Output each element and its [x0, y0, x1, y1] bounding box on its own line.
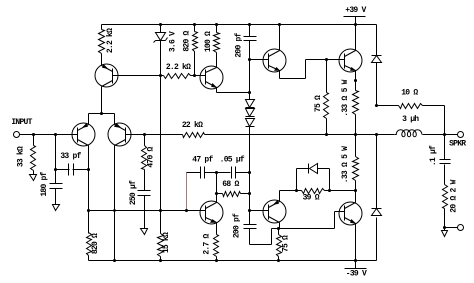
- svg-text:15 kΩ: 15 kΩ: [162, 232, 171, 253]
- svg-text:47 pf: 47 pf: [192, 155, 213, 164]
- svg-text:.33 Ω 5 W: .33 Ω 5 W: [341, 79, 350, 116]
- svg-text:75 Ω: 75 Ω: [314, 95, 323, 112]
- svg-text:3.6 V: 3.6 V: [169, 31, 178, 52]
- svg-text:2.7 Ω: 2.7 Ω: [203, 233, 212, 254]
- svg-text:20 Ω 2 W: 20 Ω 2 W: [449, 179, 458, 212]
- svg-text:33 kΩ: 33 kΩ: [17, 146, 26, 167]
- svg-text:INPUT: INPUT: [11, 118, 32, 127]
- svg-text:10 Ω: 10 Ω: [401, 89, 418, 98]
- svg-text:100 Ω: 100 Ω: [204, 31, 213, 52]
- svg-text:820 Ω: 820 Ω: [91, 233, 100, 254]
- svg-text:2.2 kΩ: 2.2 kΩ: [166, 63, 191, 72]
- svg-text:820 Ω: 820 Ω: [183, 30, 192, 51]
- svg-text:68 Ω: 68 Ω: [222, 180, 239, 189]
- svg-text:.1 µf: .1 µf: [429, 145, 438, 166]
- svg-text:3 µh: 3 µh: [402, 115, 419, 124]
- svg-text:+39 V: +39 V: [345, 6, 366, 15]
- svg-text:200 pf: 200 pf: [233, 213, 242, 238]
- svg-text:33 pf: 33 pf: [60, 152, 81, 161]
- svg-text:-39 V: -39 V: [346, 269, 367, 278]
- svg-text:200 pf: 200 pf: [235, 32, 244, 57]
- svg-text:22 kΩ: 22 kΩ: [182, 121, 203, 130]
- svg-text:.05 µf: .05 µf: [220, 155, 245, 164]
- svg-text:.33 Ω 5 W: .33 Ω 5 W: [341, 146, 350, 183]
- svg-text:250 µf: 250 µf: [129, 180, 138, 205]
- svg-text:39 Ω: 39 Ω: [303, 194, 320, 203]
- svg-text:SPKR: SPKR: [449, 140, 466, 149]
- svg-text:75 Ω: 75 Ω: [282, 235, 291, 252]
- svg-text:180 pf: 180 pf: [40, 171, 49, 196]
- svg-text:2.2 kΩ: 2.2 kΩ: [106, 28, 115, 53]
- svg-text:470 Ω: 470 Ω: [146, 146, 155, 167]
